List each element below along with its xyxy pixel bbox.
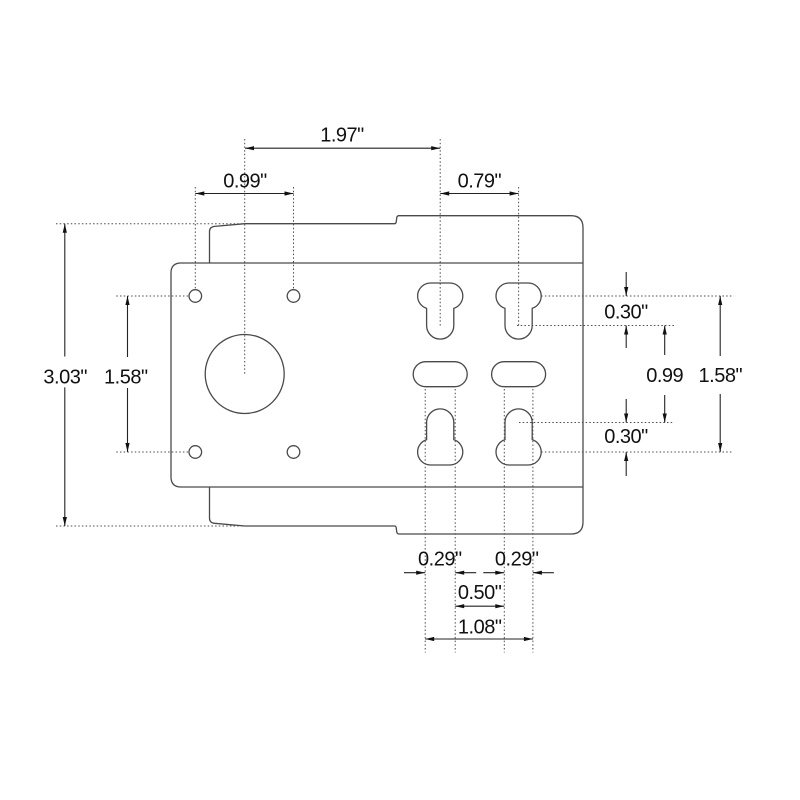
- svg-text:0.29": 0.29": [418, 549, 462, 571]
- svg-text:1.97": 1.97": [320, 124, 364, 146]
- svg-text:0.29": 0.29": [495, 549, 539, 571]
- svg-text:0.99": 0.99": [223, 170, 267, 192]
- svg-text:0.79": 0.79": [458, 170, 502, 192]
- svg-text:1.58": 1.58": [699, 365, 743, 387]
- svg-text:0.50": 0.50": [458, 582, 502, 604]
- svg-text:0.99: 0.99: [646, 365, 683, 387]
- svg-text:0.30": 0.30": [604, 426, 648, 448]
- svg-text:3.03": 3.03": [43, 366, 87, 388]
- svg-text:1.08": 1.08": [458, 617, 502, 639]
- svg-text:0.30": 0.30": [604, 301, 648, 323]
- svg-text:1.58": 1.58": [104, 366, 148, 388]
